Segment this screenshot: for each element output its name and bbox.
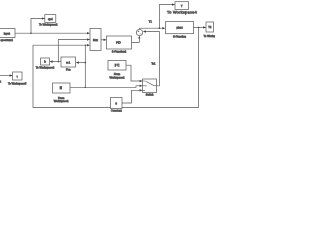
- wire: Fcn output left to To Workspace3: [51, 61, 61, 63]
- wire: feedback top segment into Mux input 3: [33, 44, 90, 46]
- svg-text:Constant: Constant: [111, 108, 122, 112]
- wire: input main line to Mux input 1: [15, 32, 90, 34]
- node: Fcn output junction: [58, 61, 60, 63]
- wire: switch output up to sum right input: [146, 32, 160, 86]
- wire: sum output to plant, with branch to T To Workspace4: [140, 28, 163, 29]
- arrow into To Workspace3: [50, 60, 53, 63]
- svg-text:Workspace2: Workspace2: [110, 76, 125, 80]
- wire: feedback loop right vertical and bottom: [33, 27, 199, 107]
- block T (To Workspace4): [175, 2, 189, 10]
- wire: feedback into Fcn input (right side, flipped block): [79, 62, 86, 64]
- svg-text:Fcn: Fcn: [66, 68, 71, 72]
- svg-text:T1: T1: [149, 20, 153, 24]
- svg-text:u-1: u-1: [66, 60, 70, 64]
- svg-text:Workspace1: Workspace1: [54, 99, 69, 103]
- svg-text:k: k: [0, 80, 2, 84]
- block spd (To Workspace2): [45, 15, 56, 23]
- svg-text:To Workspace4: To Workspace4: [167, 11, 197, 15]
- wire: S-Function2 output up into sum: [132, 36, 140, 42]
- block To Workspace right edge: [206, 22, 214, 32]
- wire: branch up to spd To Workspace2: [31, 19, 45, 34]
- svg-text:S-Function: S-Function: [173, 34, 187, 38]
- block b (To Workspace3): [41, 58, 50, 65]
- svg-text:plant: plant: [176, 26, 182, 30]
- svg-text:[t T]: [t T]: [115, 63, 120, 67]
- svg-text:To Workspace2: To Workspace2: [39, 22, 58, 26]
- node: junction at Fcn input: [85, 62, 87, 64]
- svg-text:PID: PID: [116, 41, 121, 45]
- wire: Fcn output up to Mux input 2: [58, 40, 89, 62]
- svg-text:To Workspace5: To Workspace5: [8, 81, 27, 85]
- block From Workspace1 (lower): [53, 83, 71, 93]
- block From Workspace2 (upper): [108, 61, 126, 71]
- node: junction on From Workspace1 line: [85, 87, 87, 89]
- wire: Mux output to S-Function2: [101, 39, 106, 41]
- wire: branch vertical to From Workspace1 line: [84, 45, 86, 87]
- svg-text:S-Function2: S-Function2: [112, 49, 127, 53]
- block input (From Workspace, cut at left edge): [0, 29, 15, 38]
- block Fcn: [61, 57, 76, 67]
- svg-text:To Workspa: To Workspa: [204, 34, 216, 38]
- svg-text:[t]: [t]: [60, 85, 62, 89]
- svg-text:Switch: Switch: [146, 93, 154, 97]
- node: junction at top branch: [85, 45, 86, 46]
- svg-text:Ts1: Ts1: [151, 62, 156, 66]
- wire: From Workspace1 to switch input 2: [70, 86, 142, 88]
- svg-text:spd: spd: [48, 17, 53, 21]
- block Mux: [90, 29, 101, 51]
- svg-text:spectrum1: spectrum1: [0, 38, 13, 42]
- block plant (S-Function): [166, 22, 194, 34]
- svg-text:Mux: Mux: [93, 38, 99, 42]
- svg-text:From: From: [114, 72, 121, 76]
- wire: plant output to To Workspace (right edge): [194, 26, 206, 28]
- block S-Function2: [107, 36, 132, 49]
- block t (To Workspace5): [13, 72, 23, 80]
- block Switch: [143, 79, 157, 93]
- node: branch junction on main line: [30, 32, 32, 34]
- wire: From Workspace2 to switch input 1: [126, 65, 142, 81]
- wire: clock line into t To Workspace5: [0, 75, 12, 77]
- svg-text:To Workspace3: To Workspace3: [36, 65, 55, 69]
- wire: branch up to T block: [159, 5, 174, 29]
- block Constant: [111, 98, 123, 109]
- svg-text:input: input: [4, 31, 10, 35]
- wire: Constant to switch input 3: [122, 90, 142, 103]
- sum block: [136, 29, 142, 35]
